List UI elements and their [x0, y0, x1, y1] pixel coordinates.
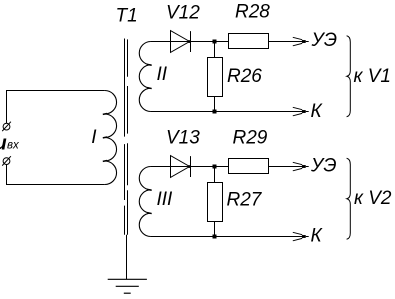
svg-text:T1: T1	[116, 5, 138, 26]
svg-text:III: III	[157, 189, 174, 210]
wire: input bottom vertical	[6, 165, 8, 185]
terminal: input upper (circle with slash)	[2, 122, 11, 131]
brace: к V2 group	[347, 158, 351, 239]
svg-text:I: I	[91, 127, 97, 148]
secondary winding II	[139, 42, 150, 112]
arrow to cathode (ch1)	[293, 107, 302, 116]
wire: bottom rail to arrow (ch2)	[151, 236, 303, 238]
wire: input top vertical	[6, 90, 8, 123]
brace: к V1 group	[347, 36, 351, 117]
arrow to control electrode (ch2)	[293, 162, 302, 171]
ground	[108, 279, 147, 293]
wire: junction down to R27	[214, 167, 216, 184]
resistor R29 (series, horizontal)	[229, 159, 269, 174]
transformer T1 core (left dashed line)	[124, 39, 126, 137]
diode V13	[171, 156, 192, 178]
svg-text:R26: R26	[227, 66, 262, 87]
svg-text:вх: вх	[7, 139, 20, 151]
wire: input bottom horizontal to primary	[7, 184, 105, 186]
svg-text:к V2: к V2	[354, 188, 392, 209]
svg-text:u: u	[0, 133, 7, 155]
svg-text:К: К	[311, 101, 324, 122]
svg-text:R27: R27	[227, 190, 263, 211]
wire: bottom rail to arrow (ch1)	[151, 111, 303, 113]
arrow to control electrode (ch1)	[293, 37, 302, 46]
resistor R28 (series, horizontal)	[229, 34, 269, 49]
node: junction dot top (ch2)	[213, 165, 217, 169]
terminal: input lower (circle with slash)	[2, 156, 11, 165]
node: junction dot bottom (ch2)	[213, 235, 217, 239]
svg-text:R29: R29	[233, 128, 268, 149]
wire: junction down to R26	[214, 42, 216, 59]
arrow to cathode (ch2)	[293, 232, 302, 241]
wire: core to ground	[126, 235, 128, 279]
node: junction dot top (ch1)	[213, 40, 217, 44]
resistor R26 (shunt, vertical)	[208, 58, 223, 97]
secondary winding III	[139, 167, 150, 237]
wire: top rail from winding to arrow (ch2)	[151, 166, 303, 168]
svg-text:V13: V13	[166, 128, 200, 149]
svg-text:К: К	[311, 225, 324, 246]
wire: R26 down to bottom rail	[214, 97, 216, 112]
resistor R27 (shunt, vertical)	[208, 183, 223, 222]
primary winding I	[105, 91, 117, 185]
svg-text:УЭ: УЭ	[311, 30, 338, 51]
wire: input top horizontal to primary	[7, 90, 105, 92]
transformer T1 core (right dashed line)	[127, 39, 129, 76]
node: junction dot bottom (ch1)	[213, 110, 217, 114]
svg-text:V12: V12	[166, 3, 200, 24]
diode V12	[171, 31, 192, 53]
wire: R27 down to bottom rail	[214, 222, 216, 237]
svg-text:к V1: к V1	[354, 66, 392, 87]
svg-text:II: II	[157, 64, 168, 85]
svg-text:УЭ: УЭ	[310, 155, 337, 176]
svg-text:R28: R28	[235, 2, 270, 23]
wire: top rail from winding to arrow (ch1)	[151, 41, 303, 43]
